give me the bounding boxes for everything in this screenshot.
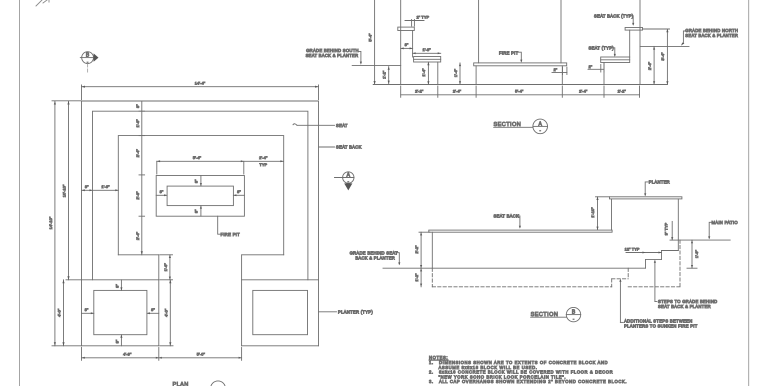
- SECTION B: leader additional steps label: [619, 279, 697, 329]
- SECTION A: north seat back cap: [625, 28, 642, 31]
- SECTION A: label grade behind north: [681, 28, 738, 46]
- SECTION A: fire pit walls below cap: [476, 66, 562, 85]
- svg-text:PLANTER (TYP): PLANTER (TYP): [338, 310, 373, 315]
- svg-text:3" TYP: 3" TYP: [663, 222, 668, 235]
- svg-text:14'-10": 14'-10": [48, 216, 53, 229]
- svg-text:8": 8": [115, 284, 120, 288]
- svg-text:5'-0": 5'-0": [197, 352, 206, 357]
- svg-text:1'-2": 1'-2": [381, 70, 386, 79]
- PLAN vertical dim chain (8",1'-6",2'-4",2'-6",2'-4"): [135, 101, 144, 255]
- svg-text:8": 8": [193, 179, 198, 183]
- svg-text:PLANTER: PLANTER: [649, 180, 670, 185]
- svg-text:1'-9": 1'-9": [694, 249, 699, 258]
- SECTION A: north grade line: [640, 45, 689, 47]
- svg-text:SEAT BACK & PLANTER: SEAT BACK & PLANTER: [658, 304, 711, 309]
- SECTION A: floor line: [373, 84, 667, 86]
- SECTION B: seat back wall left face: [431, 232, 433, 268]
- svg-text:2'-4": 2'-4": [259, 155, 268, 160]
- svg-text:1'-10": 1'-10": [590, 207, 595, 218]
- svg-text:12" TYP: 12" TYP: [625, 246, 640, 251]
- svg-text:1'-4": 1'-4": [421, 68, 426, 77]
- PLAN: fire pit outer rectangle: [156, 176, 244, 217]
- svg-text:SEAT BACK: SEAT BACK: [336, 145, 362, 150]
- svg-text:BACK & PLANTER: BACK & PLANTER: [355, 255, 395, 260]
- SECTION B: planter right wall / top riser: [677, 199, 679, 251]
- PLAN left planter wall dim 8" bottom: [115, 335, 123, 346]
- svg-text:1'-6": 1'-6": [135, 119, 140, 128]
- SECTION B: wall footing dashed: [432, 268, 611, 287]
- SECTION A: north seat cap: [601, 57, 630, 63]
- svg-text:2'-4": 2'-4": [135, 149, 140, 158]
- PLAN: outer wall rectangle: [82, 101, 319, 346]
- svg-text:2" TYP: 2" TYP: [417, 14, 430, 19]
- PLAN fire pit wall dim 8" right: [233, 189, 244, 196]
- svg-text:2'-4": 2'-4": [647, 61, 652, 70]
- SECTION B: dim 2'-2" wall height: [414, 232, 430, 268]
- svg-text:MAIN PATIO: MAIN PATIO: [712, 220, 739, 225]
- svg-text:8": 8": [160, 189, 164, 194]
- NOTES block: [429, 355, 627, 384]
- svg-text:1'-6": 1'-6": [163, 263, 168, 272]
- svg-text:SEAT BACK & PLANTER: SEAT BACK & PLANTER: [685, 33, 738, 38]
- svg-text:8": 8": [405, 42, 409, 47]
- svg-text:2'-2": 2'-2": [415, 89, 424, 94]
- SECTION A: dim 3'-4" floor to cap top: [643, 29, 670, 85]
- svg-text:FIRE PIT: FIRE PIT: [221, 232, 241, 237]
- svg-text:8": 8": [85, 307, 89, 312]
- SECTION B: dim 3" TYP cap overhang: [663, 221, 678, 240]
- SECTION B: dim 1'-9" patio to grade: [687, 240, 699, 268]
- SECTION B: dim 1'-2" below grade: [414, 268, 422, 287]
- SECTION B: label MAIN PATIO + leader: [708, 220, 738, 239]
- PLAN: planter bottom right: [242, 345, 319, 347]
- svg-text:8": 8": [85, 184, 89, 189]
- SECTION A: south seat block front: [437, 62, 439, 85]
- SECTION A: dim 1'-4" south seat height: [421, 62, 429, 85]
- SECTION B: title: [531, 307, 581, 321]
- SECTION A: dim 1'-2" grade step: [381, 67, 389, 84]
- PLAN dim 14'-10" left: [48, 101, 82, 346]
- svg-text:TYP: TYP: [259, 162, 267, 167]
- PLAN left planter wall dim 8" east: [147, 307, 159, 314]
- svg-text:2'-2": 2'-2": [414, 245, 419, 254]
- PLAN section marker A (right side): [335, 172, 355, 191]
- SECTION A: dim 2'-4" floor to north grade: [647, 46, 655, 84]
- svg-text:8": 8": [115, 339, 120, 343]
- PLAN: seat inner bottom left segment: [118, 254, 159, 256]
- svg-text:8": 8": [151, 307, 155, 312]
- svg-text:8": 8": [193, 209, 198, 213]
- svg-text:1'-2": 1'-2": [414, 273, 419, 282]
- svg-text:SEAT BACK: SEAT BACK: [494, 214, 520, 219]
- PLAN dim 10'-10" left: [61, 101, 81, 280]
- PLAN: seat outer line (rect2): [93, 111, 308, 280]
- SECTION B: steps to main patio: [646, 251, 679, 269]
- svg-text:2'-4": 2'-4": [579, 89, 588, 94]
- svg-text:FIRE PIT: FIRE PIT: [499, 50, 519, 55]
- SECTION A: bottom dim chain 2'-2",2'-4",5'-4",2'-4",2'-2": [401, 86, 640, 97]
- svg-text:4'-0": 4'-0": [57, 308, 62, 317]
- SECTION A: dim 2" fire pit cap overhang: [552, 67, 567, 75]
- svg-text:SEAT: SEAT: [336, 123, 348, 128]
- PLAN bottom dim 4'-8" / 5'-0": [82, 348, 242, 361]
- PLAN fire pit dim 5'-4" / 2'-4" TYP: [157, 155, 284, 174]
- SECTION A: fire pit label + leader: [499, 50, 522, 62]
- svg-text:1'-8": 1'-8": [422, 47, 431, 52]
- svg-text:5'-4": 5'-4": [193, 155, 202, 160]
- PLAN left planter wall dim 8" west: [82, 307, 94, 314]
- PLAN fire pit leader + label: [218, 216, 240, 237]
- PLAN: planter top line right: [242, 279, 319, 281]
- PLAN dim 14'-4" top: [82, 81, 319, 100]
- SECTION A: dim 2" north seat cap overhang: [588, 64, 604, 73]
- SECTION A: north seat block front: [603, 63, 605, 85]
- PLAN label SEAT BACK with leader: [319, 145, 362, 150]
- SECTION B: label SEAT BACK + leader: [494, 214, 522, 229]
- svg-text:2'-4": 2'-4": [135, 231, 140, 240]
- SECTION B: seat back cap (long bar): [429, 230, 612, 232]
- PLAN: right notch / planter left edge: [241, 255, 243, 346]
- svg-text:10'-10": 10'-10": [61, 184, 66, 197]
- PLAN left planter wall dim 8" top: [115, 280, 123, 291]
- SECTION B: main patio line: [678, 239, 730, 241]
- SECTION A: fire pit upper body sides (cut off at top): [479, 0, 561, 63]
- SECTION A: fire pit cap: [474, 63, 567, 66]
- SECTION B: dim 1'-10" planter above seat back: [590, 197, 610, 230]
- SECTION B: grade line: [383, 267, 646, 269]
- SECTION A: label SEAT BACK (TYP) + leader: [594, 14, 634, 26]
- PLAN fire pit wall dim 8" top: [193, 176, 202, 187]
- PLAN: left planter inner rectangle: [94, 290, 147, 334]
- svg-text:-: -: [540, 128, 542, 133]
- PLAN label PLANTER (TYP) with leader: [319, 310, 374, 315]
- PLAN: seat inner bottom right segment: [242, 254, 284, 256]
- SECTION B: planter cap: [610, 197, 682, 199]
- PLAN: right planter inner rectangle: [253, 290, 308, 334]
- PLAN left planter dim 4'-0" (west): [57, 280, 65, 346]
- SECTION B: dashed hidden step (below grade): [612, 240, 680, 287]
- svg-text:2": 2": [554, 67, 558, 72]
- svg-text:-: -: [573, 316, 575, 321]
- svg-text:2'-4": 2'-4": [453, 89, 462, 94]
- svg-text:2'-6": 2'-6": [135, 191, 140, 200]
- svg-text:4'-0": 4'-0": [163, 308, 168, 317]
- svg-text:1'-6": 1'-6": [101, 184, 110, 189]
- SECTION A: dim 1'-8" south seat cap: [413, 47, 441, 54]
- PLAN title: [173, 381, 226, 386]
- SECTION A: south seat back wall: [401, 0, 413, 85]
- svg-text:5'-4": 5'-4": [515, 89, 524, 94]
- svg-text:4'-8": 4'-8": [123, 352, 132, 357]
- SECTION A: left vertical dim line: [367, 0, 375, 85]
- svg-text:5'-4": 5'-4": [367, 33, 372, 42]
- svg-text:2'-2": 2'-2": [618, 89, 627, 94]
- SECTION A: title: [494, 119, 548, 134]
- svg-text:2": 2": [589, 64, 593, 69]
- PLAN dim 8" / 1'-6" west wall: [82, 184, 119, 191]
- SECTION B: planter left wall: [611, 199, 613, 230]
- PLAN: planter bottom left: [82, 345, 159, 347]
- SECTION A: dim 1'-4" fire pit height: [453, 63, 461, 85]
- svg-text:8": 8": [135, 104, 140, 108]
- PLAN: seat inner edge (rect3): [118, 136, 283, 255]
- svg-text:STEPS TO GRADE BEHIND: STEPS TO GRADE BEHIND: [658, 299, 717, 304]
- SECTION A: dim 8" south wall: [401, 42, 413, 49]
- SECTION A: north seat back wall: [630, 0, 640, 85]
- SECTION A: label SEAT (TYP) + leader: [589, 46, 616, 57]
- svg-text:PLANTERS TO SUNKEN FIRE PIT: PLANTERS TO SUNKEN FIRE PIT: [624, 324, 698, 329]
- PLAN fire pit wall dim 8" left: [156, 189, 167, 196]
- PLAN dim 1'-6" at left notch: [160, 255, 173, 280]
- SECTION B: leader steps to grade label: [654, 260, 718, 309]
- svg-text:14'-4": 14'-4": [195, 81, 206, 86]
- SECTION B: label PLANTER + leader: [644, 180, 670, 197]
- svg-text:SEAT BACK (TYP): SEAT BACK (TYP): [594, 14, 634, 19]
- sheet right border: [748, 0, 750, 386]
- sheet left border: [19, 0, 21, 386]
- SECTION A: label grade behind south: [306, 48, 362, 65]
- top-left cut-off artifact: [36, 0, 49, 6]
- svg-text:1'-4": 1'-4": [453, 68, 458, 77]
- svg-text:PLAN: PLAN: [173, 382, 189, 386]
- PLAN left planter dim 4'-0" (east): [160, 280, 173, 346]
- PLAN fire pit wall dim 8" bottom: [193, 206, 202, 217]
- SECTION B: label grade behind seat back: [350, 250, 401, 265]
- SECTION A: dim 2" TYP cap overhang: [405, 14, 430, 26]
- svg-text:ADDITIONAL STEPS BETWEEN: ADDITIONAL STEPS BETWEEN: [624, 318, 692, 323]
- svg-text:3'-4": 3'-4": [660, 52, 665, 61]
- PLAN: left notch / planter right edge: [158, 255, 160, 346]
- SECTION A: south grade line: [352, 65, 401, 67]
- svg-text:3. ALL CAP OVERHANGS SHOWN E: 3. ALL CAP OVERHANGS SHOWN EXTENDING 2" …: [429, 379, 627, 384]
- svg-text:SEAT BACK & PLANTER: SEAT BACK & PLANTER: [306, 53, 359, 58]
- PLAN section marker B (top): [80, 52, 98, 74]
- svg-text:8": 8": [237, 189, 241, 194]
- PLAN: planter top line left: [82, 279, 159, 281]
- PLAN: fire pit inner rectangle: [167, 186, 233, 206]
- PLAN label SEAT with leader: [293, 123, 348, 128]
- SECTION A: south seat cap: [414, 57, 441, 63]
- SECTION A: south seat back cap: [398, 27, 415, 30]
- SECTION B: dim 12" TYP tread: [625, 246, 662, 253]
